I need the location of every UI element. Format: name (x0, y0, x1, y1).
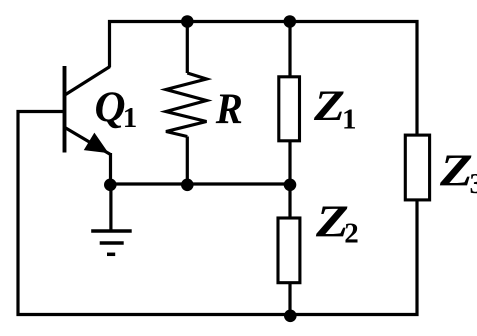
svg-text:Q: Q (95, 84, 126, 131)
svg-text:Z: Z (439, 144, 473, 195)
svg-text:R: R (215, 86, 243, 133)
svg-text:2: 2 (344, 218, 359, 250)
svg-text:Z: Z (313, 83, 345, 130)
svg-text:3: 3 (470, 168, 477, 200)
svg-text:1: 1 (342, 104, 357, 136)
svg-text:1: 1 (123, 102, 138, 134)
